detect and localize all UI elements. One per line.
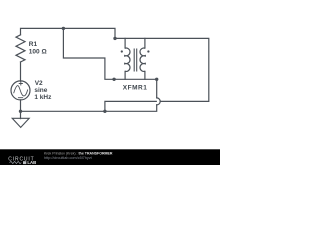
svg-text:XFMR1: XFMR1 — [123, 85, 148, 92]
source V2 circle — [11, 81, 30, 100]
transformer secondary coil — [140, 48, 145, 71]
node junction dot source ground — [19, 110, 22, 113]
CircuitLab logo block — [23, 161, 26, 164]
wire secondary bottom riser — [156, 79, 158, 98]
V2 minus sign — [18, 97, 22, 99]
svg-text:Krek Prinslov (Krek) : the TRA: Krek Prinslov (Krek) : the TRANSFORMER — [44, 152, 113, 156]
transformer primary coil — [125, 48, 130, 71]
node junction dot xfmr top-left pin — [113, 37, 116, 40]
node junction dot xfmr bottom-left pin — [112, 78, 115, 81]
svg-text:sine: sine — [34, 87, 47, 94]
footer black bar — [0, 149, 220, 165]
V2 plus sign — [19, 82, 22, 85]
wire right-loop bottom left of hop — [105, 101, 156, 111]
transformer secondary top lead — [144, 38, 146, 48]
svg-text:100 Ω: 100 Ω — [29, 48, 47, 55]
transformer secondary phase dot — [147, 50, 149, 52]
wire ground rail — [21, 105, 157, 111]
wire Z branch from top rail to xfmr bottom rail — [63, 28, 114, 79]
svg-text:LAB: LAB — [27, 160, 36, 165]
wire R1 to V2 — [20, 62, 22, 81]
V2 sine glyph — [14, 86, 28, 96]
node junction dot xfmr bottom-right pin — [155, 78, 158, 81]
svg-text:http://circuitlab.com/c5l7hyvt: http://circuitlab.com/c5l7hyvt — [44, 156, 93, 160]
wire V2 to ground — [20, 100, 22, 119]
node junction dot top rail branch — [62, 27, 65, 30]
wire transformer top rail — [115, 38, 209, 101]
ground symbol — [12, 118, 29, 127]
transformer secondary bottom lead — [144, 71, 146, 79]
node junction dot ground rail riser — [103, 110, 106, 113]
svg-text:1 kHz: 1 kHz — [34, 94, 52, 101]
resistor R1 — [16, 35, 25, 62]
wire hop over crossing — [157, 98, 161, 105]
transformer core lines — [134, 49, 137, 71]
CircuitLab logo zigzag — [10, 161, 22, 163]
svg-text:R1: R1 — [29, 41, 38, 48]
wire top left horizontal — [21, 28, 116, 38]
wire xfmr bottom rail — [114, 78, 157, 80]
transformer primary bottom lead — [124, 71, 126, 79]
transformer XFMR1 primary top lead — [124, 38, 126, 48]
transformer primary phase dot — [121, 50, 123, 52]
